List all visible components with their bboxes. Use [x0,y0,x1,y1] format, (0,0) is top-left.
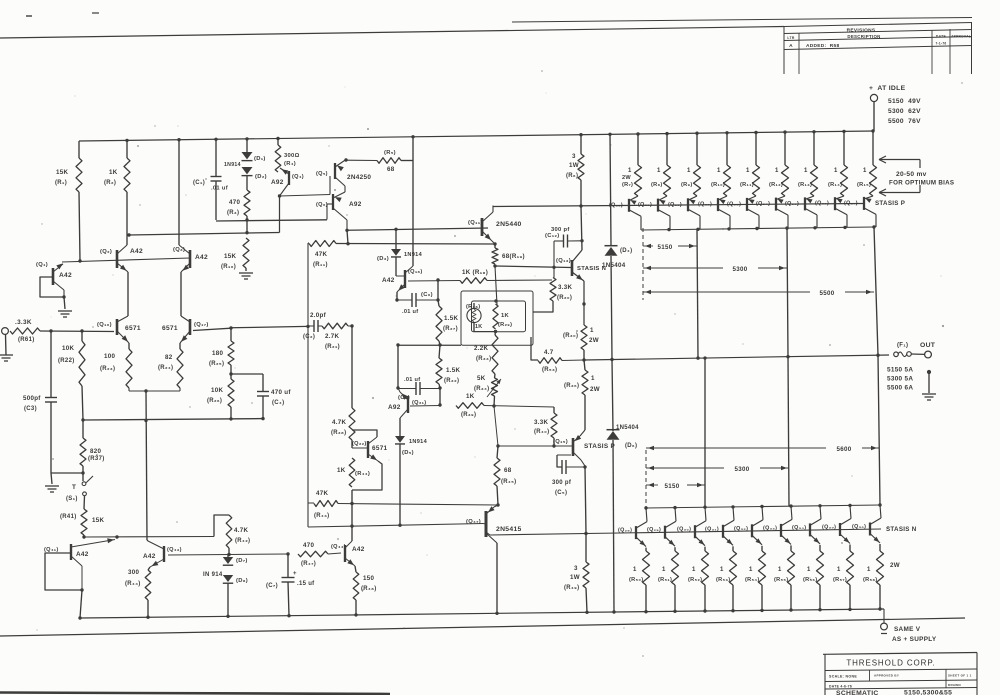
svg-text:1: 1 [867,567,871,573]
svg-text:(Q₂₃): (Q₂₃) [727,201,741,207]
wire x705 vertical [704,358,706,507]
transistor Q15 base lead [498,445,573,447]
junction node Q17 base R25 [229,326,232,329]
transistor Q18 base lead [396,275,405,277]
svg-text:(Q₂₂): (Q₂₂) [698,202,712,208]
transistor Q42 collector [71,540,115,548]
svg-text:ADDED: R58: ADDED: R58 [806,43,839,49]
transistor Q24 emitter [776,196,785,200]
svg-text:1: 1 [687,168,691,174]
module box inner [472,301,526,332]
wire H5 step [214,515,229,537]
wire R37 top lead [82,420,84,438]
wire R44 bottom lead [147,600,149,617]
resistor R45 68 [494,458,500,486]
svg-text:1N914: 1N914 [409,439,428,445]
svg-text:3.3K: 3.3K [558,284,573,291]
svg-text:5300 62V: 5300 62V [888,108,921,115]
svg-text:5300 5A: 5300 5A [887,376,913,383]
wire R41 bottom lead [83,535,85,537]
svg-text:100: 100 [104,353,115,360]
svg-text:1K (R₁₈): 1K (R₁₈) [462,269,488,276]
svg-text:5K: 5K [477,375,486,382]
svg-text:(R₅): (R₅) [384,150,396,156]
junction node Q42 emitter [80,588,83,591]
svg-text:2W: 2W [590,386,600,393]
svg-text:(Q₂₂): (Q₂₂) [352,441,367,447]
wire C5 bar link [557,454,571,456]
wire Q43 base line [168,554,229,557]
transistor Q31 collector [723,520,734,527]
wire C2 left stub [308,325,314,327]
svg-text:4.7K: 4.7K [234,527,249,534]
junction node D5 lineB [398,524,401,527]
transistor Q22 emitter [368,454,378,461]
svg-text:SAME V: SAME V [894,626,921,633]
svg-text:(D₈): (D₈) [236,578,248,584]
svg-text:(R₅₃): (R₅₃) [716,577,730,583]
wire Q18 emitter down [396,292,398,300]
wire R3 bottom lead [246,216,248,233]
junction node lineB x352 [350,524,353,527]
svg-text:(C₆): (C₆) [421,292,433,298]
transistor Q17 collector [181,316,190,322]
transistor Q30 collector [695,521,706,528]
svg-text:7-1-76: 7-1-76 [935,42,946,46]
wire Q34 emitter lead [819,545,821,551]
wire C8 left lead [398,388,416,390]
svg-text:(Q₄₃): (Q₄₃) [167,547,182,553]
svg-text:5150: 5150 [665,483,680,490]
capacitor C3 500pf [45,397,57,399]
junction node bus R49 [585,611,588,614]
resistor R44 300 [145,570,151,600]
transistor Q21 collector [400,409,408,418]
diode D4 1N5404 [605,247,618,256]
wire R9 top lead [696,133,698,165]
wire C4 bottom lead [262,396,264,419]
transistor Q1 base loop [40,277,64,297]
transistor Q34 collector [810,519,821,526]
dim 5600 bottom [646,447,826,449]
transistor Q42 base loop [45,553,82,590]
svg-text:(R₂₁): (R₂₁) [325,344,340,350]
svg-text:(R₄₃): (R₄₃) [314,513,329,519]
svg-text:6571: 6571 [372,445,388,452]
svg-text:1N914: 1N914 [224,162,241,168]
capacitor C6 .01uf [411,293,413,307]
svg-text:(C₁₂): (C₁₂) [545,233,560,239]
transistor Q5 bar [334,163,336,179]
transistor Q30 emitter [695,536,705,546]
svg-text:(R₂): (R₂) [104,180,116,186]
transistor Q21 emitter [400,392,408,400]
junction node OUT x698 [696,356,699,359]
svg-text:(Q₃₂): (Q₃₂) [734,526,748,532]
svg-text:A42: A42 [382,277,395,284]
svg-text:(Q₃₅): (Q₃₅) [822,525,836,531]
junction collector bus node Q29 [673,506,676,509]
wire x308 corner to R43 [308,502,314,504]
transistor Q27 emitter [864,196,873,199]
SAME V terminal [881,623,888,630]
junction node C1 R3 [245,218,248,221]
wire R27 bottom lead [439,341,440,345]
svg-text:1: 1 [749,567,753,573]
wire R45 top lead [497,446,498,458]
junction collector bus node x874 [872,225,875,228]
resistor R4 300 [275,145,281,172]
svg-text:A92: A92 [271,179,284,186]
junction node Q5 emitter [344,158,347,161]
resistor R9 1 ohm [694,165,701,196]
diode D6 1N5404 [607,431,620,440]
svg-text:3: 3 [572,153,576,160]
resistor R11A 1 ohm [753,165,760,196]
wire Q35 emitter lead [849,545,851,552]
transistor Q5 emitter [335,160,346,168]
svg-text:IN 914: IN 914 [203,572,223,578]
svg-text:(R₂₉): (R₂₉) [498,322,512,328]
wire input to node A [40,330,114,333]
svg-text:DATE: DATE [936,35,947,39]
junction node bus D6 [612,610,615,613]
wire R22 to H4 [82,386,83,420]
transistor Q6 emitter [333,192,345,198]
junction node H5 left [82,535,85,538]
svg-text:A42: A42 [59,272,72,279]
transistor Q47 emitter [486,507,494,514]
transistor Q31 emitter [723,536,733,546]
svg-text:A92: A92 [349,201,362,208]
transistor Q42 emitter [71,556,82,566]
svg-text:300Ω: 300Ω [284,153,300,159]
wire lamp cell bottom [474,331,496,333]
wire R25 to C2 line [231,326,308,327]
junction rail node R15 [871,129,874,132]
junction bottom bus node R55 [789,608,792,611]
wire Q29 emitter lead [674,547,676,551]
wire line A [338,504,498,506]
wire H2 to D3 [395,229,397,249]
wire R42 to D7 [227,555,229,558]
svg-text:1: 1 [692,567,696,573]
svg-text:APPROVAL: APPROVAL [951,34,971,38]
wire H2 second stage line right [347,228,488,230]
resistor R42 4.7K [226,515,232,548]
svg-text:(Q₂₆): (Q₂₆) [815,201,829,207]
svg-text:REVISIONS: REVISIONS [847,28,876,34]
wire dashed 5150 top [642,228,644,300]
wire Q30 emitter lead [704,547,706,551]
svg-text:2N4250: 2N4250 [347,174,371,181]
wire R1 bottom lead [79,192,80,261]
svg-text:(S₁): (S₁) [66,496,78,502]
svg-text:(R₁₂): (R₁₂) [769,182,783,188]
transistor Q33 bar [780,524,782,537]
junction rail node R8 [665,132,668,135]
wire Q28 emitter lead [645,548,647,551]
svg-text:1: 1 [591,375,595,382]
wire first stage base bus [62,258,190,262]
svg-text:(R₅₅): (R₅₅) [774,577,788,583]
svg-text:(Q₂₈): (Q₂₈) [618,528,632,534]
svg-text:(R₁₁): (R₁₁) [313,262,328,268]
transistor Q43 collector [148,541,164,549]
svg-text:1K: 1K [466,393,475,400]
transistor Q26 collector [835,208,847,215]
wire R5 left [346,159,377,161]
junction collector bus node x845 [843,226,846,229]
wire R50 bottom lead [645,585,647,612]
resistor R43 47K [314,501,338,507]
svg-text:1.5K: 1.5K [444,315,459,322]
transistor Q21A bar [687,198,689,211]
junction node y345 left [396,343,399,346]
junction node OUT x705 [703,356,706,359]
wire R57 bottom lead [849,585,851,610]
capacitor C8 .01uf [415,382,417,395]
resistor R8 1 ohm [664,165,671,196]
junction node x352 top [350,324,353,327]
resistor R23 100 [126,349,132,388]
svg-text:SHEET OF 1 1: SHEET OF 1 1 [948,673,972,677]
junction node R18 drop [436,278,439,281]
wire x352 to line A [351,490,353,504]
junction node R22 top [80,329,83,332]
transistor Q35 collector [840,519,851,526]
svg-text:1: 1 [720,567,724,573]
wire Q17 emitter to R24 [179,343,181,349]
resistor R29 1K [493,304,498,329]
svg-text:15K: 15K [56,169,68,176]
svg-text:(Q₂₉): (Q₂₉) [647,527,661,533]
diode D1 1N914 [242,152,253,159]
junction collector bus node Q30 [703,506,706,509]
junction node C3 top [49,329,52,332]
svg-text:SCALE: NONE: SCALE: NONE [829,675,857,679]
wire C6 left lead [397,299,412,301]
svg-text:6571: 6571 [162,325,178,332]
resistor R15 1 ohm [870,165,877,196]
junction node C6 left [395,298,398,301]
svg-text:(Q₄₁): (Q₄₁) [44,547,59,553]
transistor Q21 base lead [410,405,440,408]
svg-text:5300: 5300 [733,266,748,273]
svg-text:(R₆): (R₆) [566,173,578,179]
transistor Q22A emitter [718,196,727,200]
resistor R22 10K [79,341,85,386]
wire Q5 base riser [329,176,331,195]
junction node OUT x788 [786,355,789,358]
svg-text:(R₄): (R₄) [284,161,296,167]
wire D2 to R3 [246,176,248,190]
capacitor C12 300pf [563,235,565,248]
svg-text:(R61): (R61) [18,337,35,343]
junction node R27 R32 [438,343,441,346]
junction node C12 [580,239,583,242]
resistor R18 1K [460,278,487,284]
transistor Q11 collector [482,212,493,222]
wire Q11 collector to bus [492,206,494,207]
resistor R47 470 [298,551,328,557]
svg-text:(R₁₅): (R₁₅) [857,182,871,188]
junction node R26 bottom [229,417,232,420]
svg-text:5150,5300&55: 5150,5300&55 [904,689,952,695]
junction rail node R14 [842,130,845,133]
junction node bus R44 [146,616,149,619]
svg-text:(Q₅): (Q₅) [316,171,328,177]
svg-text:(R22): (R22) [58,358,75,364]
junction node H2 Q6 [345,229,348,232]
transistor Q29 emitter [665,537,675,547]
resistor R58 1 ohm [877,551,884,585]
transistor Q17 bar [189,319,192,335]
transistor Q43 bar [163,546,165,562]
svg-text:6571: 6571 [125,325,141,332]
transistor Q20 emitter [658,196,667,201]
wire x585 column [585,467,586,534]
resistor R51 1 ohm [672,551,679,585]
wire D1 top lead [246,139,248,152]
svg-text:1: 1 [807,567,811,573]
wire R48 bottom lead [355,600,357,615]
wire Q31 emitter lead [732,546,734,551]
wire x352 to Q44 [351,504,353,542]
dim 5150 bottom [646,484,658,486]
transistor Q43 emitter [150,559,164,567]
junction node R40 base line [552,444,555,447]
ground R16 ground [239,272,253,274]
junction rail node R13 [812,130,815,133]
wire D3 to Q18 base [395,257,397,276]
svg-text:(Q₁₈): (Q₁₈) [408,269,423,275]
svg-text:(R₃₉): (R₃₉) [461,412,476,418]
wire lamp bottom lead [473,322,475,332]
wire Q3 emitter to Q17 collector [180,272,182,316]
transistor Q18 collector [405,266,413,273]
wire Q42 to bus [80,590,82,618]
junction node base bus left [78,259,81,262]
svg-text:82: 82 [165,354,173,361]
svg-text:1: 1 [662,567,666,573]
scan specks top-left [26,15,32,17]
svg-text:5300: 5300 [735,466,750,473]
svg-text:.01 uf: .01 uf [211,186,228,192]
wire Q33 emitter lead [790,545,792,551]
wire S1 to R41 [83,496,86,509]
svg-text:470: 470 [303,542,314,549]
transistor Q31 bar [722,525,724,538]
transistor Q29 bar [664,526,666,539]
transistor Q15 bar [572,438,575,456]
wire bus corner to terminal [883,609,885,623]
svg-text:(R₅₃): (R₅₃) [542,367,557,373]
svg-text:(R₁₆): (R₁₆) [221,264,236,270]
svg-text:(C3): (C3) [24,406,37,412]
diode D2 1N914 [242,167,253,174]
wire R18 right [487,279,552,282]
junction node rail R2 [125,139,128,142]
resistor R2 1K [124,158,130,192]
svg-text:.01 uf: .01 uf [402,309,418,315]
wire R13 top lead [813,132,815,165]
junction node C8 left [396,386,399,389]
svg-text:(Q₆): (Q₆) [316,202,328,208]
transistor Q1 emitter [53,281,64,290]
svg-text:1W: 1W [570,574,580,581]
svg-text:A42: A42 [195,254,208,261]
svg-text:(R₂₅): (R₂₅) [209,361,224,367]
wire center node line [398,344,461,346]
junction rail node R9 [695,132,698,135]
revisions table box [784,23,972,27]
svg-text:A42: A42 [143,553,156,560]
wire Q17 base lead [193,328,231,330]
wire x352 column upper [351,326,353,408]
wire Q2 emitter to Q16 collector [127,272,129,316]
svg-text:(C₁): (C₁) [193,180,205,186]
wire R32 top lead [439,345,440,358]
svg-text:STASIS N: STASIS N [886,526,917,533]
junction rail node R7 [636,132,639,135]
module box outer [461,291,533,345]
junction node rail Q3 [177,138,180,141]
transistor Q21A emitter [688,196,697,200]
junction node C7 top [286,552,289,555]
junction node rail C1 [214,138,217,141]
junction node Q1 emitter [62,295,65,298]
diode D8 1N914 [223,575,233,582]
svg-text:300: 300 [128,569,139,576]
wire R11 to Q11 emitter node [336,243,495,246]
svg-text:1N914: 1N914 [404,252,423,258]
svg-text:A42: A42 [76,551,89,558]
svg-text:470 uf: 470 uf [271,389,291,396]
svg-text:(Q₁₇): (Q₁₇) [194,322,209,328]
svg-text:(R37): (R37) [88,456,105,462]
svg-text:(Q₃₀): (Q₃₀) [677,527,691,533]
wire tail current line [146,391,147,540]
transistor Q23 bar [746,198,748,211]
wire x611 OUT to D6 [612,360,613,432]
transistor Q4 collector [280,183,290,196]
svg-text:(R₄₂): (R₄₂) [235,538,250,544]
svg-text:(Q₃₆): (Q₃₆) [852,524,866,530]
transistor Q6 bar [332,194,334,210]
svg-text:(Q₂₁): (Q₂₁) [412,400,426,406]
wire R27 top lead [438,300,439,306]
wire bottom output base bus [490,529,881,535]
junction collector bus node x757 [755,227,758,230]
wire lamp top lead [473,303,475,309]
wire x398 center drop [397,345,399,388]
svg-text:1: 1 [863,168,867,174]
svg-text:APPROVED BY: APPROVED BY [874,674,899,678]
svg-text:(R₉): (R₉) [681,182,692,188]
svg-text:(Q₃₄): (Q₃₄) [792,525,806,531]
wire R38 to Q22 [351,440,353,448]
wire C12 right [568,240,583,242]
wire R33 top lead [494,332,497,336]
resistor R1 15K [76,158,82,192]
wire x611 D6 to bus [613,440,614,612]
svg-text:AS + SUPPLY: AS + SUPPLY [892,636,937,643]
junction collector bus node x787 [785,226,788,229]
page top border line [0,27,784,39]
svg-text:2N5440: 2N5440 [496,221,522,228]
svg-text:(R₃₃): (R₃₃) [476,356,491,362]
